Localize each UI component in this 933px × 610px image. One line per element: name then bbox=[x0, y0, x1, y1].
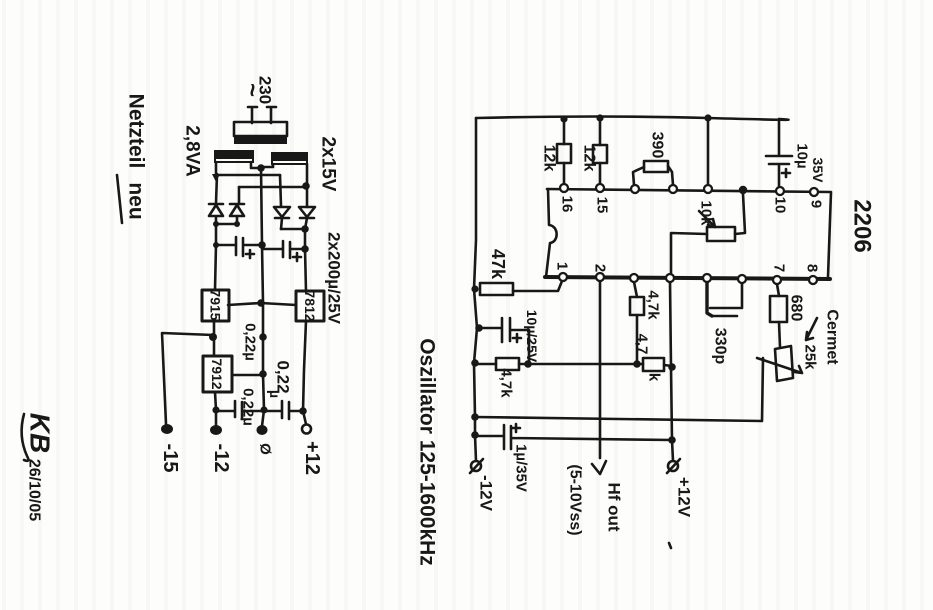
svg-text:-15: -15 bbox=[159, 444, 181, 473]
svg-text:26/10/05: 26/10/05 bbox=[26, 459, 43, 521]
svg-text:KB: KB bbox=[25, 413, 56, 453]
svg-text:-12V: -12V bbox=[477, 475, 496, 512]
svg-text:2206: 2206 bbox=[849, 199, 876, 252]
svg-text:neu: neu bbox=[125, 182, 148, 219]
svg-text:-12: -12 bbox=[210, 444, 232, 473]
svg-text:0,22: 0,22 bbox=[274, 360, 293, 393]
svg-text:15: 15 bbox=[594, 197, 611, 214]
svg-text:4,7k: 4,7k bbox=[498, 368, 515, 398]
svg-text:+12V: +12V bbox=[675, 477, 694, 518]
svg-text:7915: 7915 bbox=[208, 289, 224, 320]
svg-text:10: 10 bbox=[772, 197, 789, 214]
svg-text:390: 390 bbox=[649, 132, 666, 159]
svg-text:Ø: Ø bbox=[257, 443, 274, 455]
svg-text:4,7k: 4,7k bbox=[645, 290, 662, 320]
svg-text:330p: 330p bbox=[712, 328, 729, 365]
svg-text:680: 680 bbox=[788, 295, 805, 322]
svg-text:+12: +12 bbox=[301, 441, 323, 475]
svg-text:2x200µ/25V: 2x200µ/25V bbox=[325, 232, 344, 325]
svg-text:35V: 35V bbox=[810, 158, 826, 184]
svg-text:0,22µ: 0,22µ bbox=[240, 388, 257, 426]
svg-text:Oszillator 125-1600kHz: Oszillator 125-1600kHz bbox=[416, 338, 439, 566]
svg-text:7912: 7912 bbox=[209, 358, 225, 389]
svg-text:16: 16 bbox=[559, 196, 576, 213]
svg-text:7812: 7812 bbox=[302, 290, 318, 321]
svg-text:(5-10Vss): (5-10Vss) bbox=[567, 464, 584, 535]
svg-text:10k: 10k bbox=[698, 200, 715, 226]
svg-text:4,7: 4,7 bbox=[634, 334, 651, 355]
svg-text:0,22µ: 0,22µ bbox=[242, 323, 259, 361]
svg-text:1µ/35V: 1µ/35V bbox=[513, 444, 530, 492]
svg-text:9: 9 bbox=[808, 200, 825, 208]
svg-text:1: 1 bbox=[554, 262, 571, 270]
svg-text:2,8VA: 2,8VA bbox=[182, 125, 203, 177]
svg-text:2x15V: 2x15V bbox=[318, 137, 339, 192]
svg-text:10µ/25V: 10µ/25V bbox=[524, 310, 540, 363]
svg-text:k: k bbox=[646, 373, 663, 382]
svg-text:47k: 47k bbox=[488, 249, 508, 280]
svg-text:10µ: 10µ bbox=[794, 143, 811, 168]
svg-text:12k: 12k bbox=[541, 145, 558, 172]
svg-text:2: 2 bbox=[592, 264, 609, 272]
svg-text:12k: 12k bbox=[581, 145, 598, 172]
svg-text:8: 8 bbox=[804, 264, 821, 272]
svg-text:Netzteil: Netzteil bbox=[125, 94, 148, 169]
svg-text:Cermet: Cermet bbox=[824, 309, 841, 365]
svg-text:Hf out: Hf out bbox=[605, 482, 624, 531]
svg-text:7: 7 bbox=[771, 264, 788, 272]
svg-text:230: 230 bbox=[256, 76, 275, 104]
svg-text:µ: µ bbox=[267, 390, 283, 398]
svg-text:25k: 25k bbox=[802, 344, 819, 370]
